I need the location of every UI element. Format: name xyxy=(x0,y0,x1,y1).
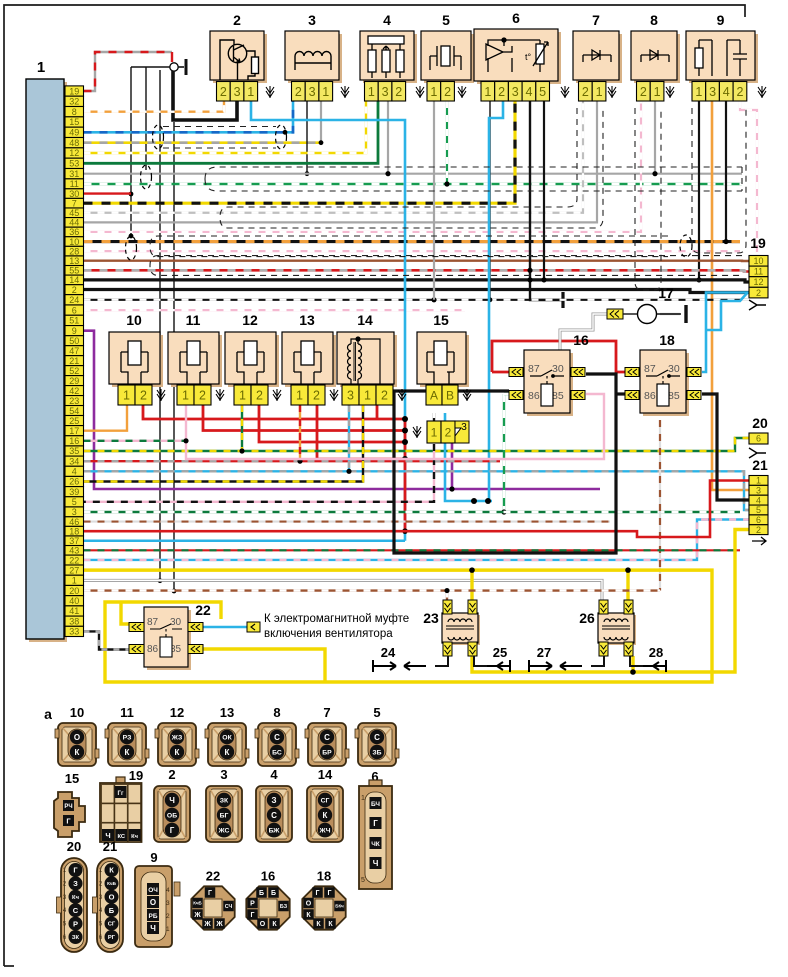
svg-text:1: 1 xyxy=(484,85,491,99)
svg-text:10: 10 xyxy=(69,237,79,247)
svg-text:4: 4 xyxy=(723,85,730,99)
svg-text:К: К xyxy=(125,748,130,757)
svg-text:12: 12 xyxy=(69,148,79,158)
svg-text:5: 5 xyxy=(361,877,365,884)
svg-text:18: 18 xyxy=(317,869,331,884)
svg-text:8: 8 xyxy=(72,107,77,117)
svg-text:14: 14 xyxy=(69,275,79,285)
svg-text:13: 13 xyxy=(69,256,79,266)
svg-text:5: 5 xyxy=(442,12,450,28)
svg-text:Г: Г xyxy=(328,890,332,897)
svg-text:16: 16 xyxy=(261,869,275,884)
svg-text:КчБ: КчБ xyxy=(193,901,201,906)
svg-text:7: 7 xyxy=(72,198,77,208)
svg-text:12: 12 xyxy=(242,312,258,328)
svg-text:4: 4 xyxy=(166,887,170,894)
svg-text:Г: Г xyxy=(66,817,71,826)
svg-text:3: 3 xyxy=(220,767,227,782)
svg-text:10: 10 xyxy=(126,312,142,328)
svg-text:2: 2 xyxy=(445,425,452,439)
svg-text:БЖ: БЖ xyxy=(269,827,281,834)
svg-text:Г: Г xyxy=(316,890,320,897)
svg-text:5: 5 xyxy=(72,497,77,507)
svg-text:Кч: Кч xyxy=(72,895,79,901)
svg-text:50: 50 xyxy=(69,336,79,346)
svg-text:16: 16 xyxy=(573,332,589,348)
svg-text:3: 3 xyxy=(166,900,170,907)
svg-text:86: 86 xyxy=(644,390,656,402)
svg-text:12: 12 xyxy=(753,277,763,287)
svg-text:3: 3 xyxy=(512,85,519,99)
svg-text:К: К xyxy=(316,921,321,928)
svg-text:21: 21 xyxy=(69,356,79,366)
svg-text:1: 1 xyxy=(322,85,329,99)
svg-text:ЧК: ЧК xyxy=(371,841,380,848)
svg-text:2: 2 xyxy=(381,389,388,403)
svg-text:3: 3 xyxy=(347,389,354,403)
svg-text:15: 15 xyxy=(69,117,79,127)
svg-text:1: 1 xyxy=(296,389,303,403)
svg-text:21: 21 xyxy=(103,839,117,854)
svg-text:31: 31 xyxy=(69,169,79,179)
svg-text:26: 26 xyxy=(579,610,595,626)
svg-text:6: 6 xyxy=(756,434,761,444)
svg-text:2: 2 xyxy=(640,85,647,99)
svg-text:6: 6 xyxy=(756,515,761,525)
svg-text:A: A xyxy=(430,388,438,402)
svg-text:87: 87 xyxy=(147,617,159,628)
svg-text:2: 2 xyxy=(582,85,589,99)
svg-text:СГ: СГ xyxy=(108,922,116,928)
svg-text:С: С xyxy=(374,733,380,742)
svg-text:К: К xyxy=(75,748,80,757)
svg-text:34: 34 xyxy=(69,456,79,466)
svg-text:К: К xyxy=(272,921,277,928)
svg-text:2: 2 xyxy=(220,85,227,99)
svg-text:Г: Г xyxy=(73,866,78,875)
svg-text:К: К xyxy=(323,811,328,820)
svg-text:О: О xyxy=(260,921,266,928)
svg-text:21: 21 xyxy=(752,457,768,473)
svg-text:38: 38 xyxy=(69,616,79,626)
svg-text:4: 4 xyxy=(270,767,278,782)
svg-text:19: 19 xyxy=(129,768,143,783)
svg-text:25: 25 xyxy=(69,416,79,426)
svg-text:Б: Б xyxy=(259,890,264,897)
svg-text:30: 30 xyxy=(69,189,79,199)
svg-text:3: 3 xyxy=(72,507,77,517)
svg-text:26: 26 xyxy=(69,477,79,487)
svg-text:С: С xyxy=(271,811,277,820)
svg-text:1: 1 xyxy=(123,389,130,403)
svg-text:1: 1 xyxy=(654,85,661,99)
svg-text:1: 1 xyxy=(37,59,45,76)
svg-text:К: К xyxy=(225,748,230,757)
svg-text:54: 54 xyxy=(69,406,79,416)
svg-text:13: 13 xyxy=(220,705,234,720)
svg-text:О: О xyxy=(150,898,156,907)
svg-text:17: 17 xyxy=(69,426,79,436)
svg-text:2: 2 xyxy=(168,767,175,782)
svg-text:ЗК: ЗК xyxy=(220,797,229,804)
svg-text:Г: Г xyxy=(373,819,378,828)
svg-text:3: 3 xyxy=(461,422,467,433)
svg-text:23: 23 xyxy=(69,396,79,406)
svg-text:1: 1 xyxy=(182,389,189,403)
svg-text:СЧ: СЧ xyxy=(225,904,233,910)
svg-text:42: 42 xyxy=(69,386,79,396)
svg-text:ЗБ: ЗБ xyxy=(372,749,381,756)
svg-text:15: 15 xyxy=(65,771,79,786)
svg-text:32: 32 xyxy=(69,97,79,107)
svg-text:2: 2 xyxy=(736,85,743,99)
svg-text:2: 2 xyxy=(444,85,451,99)
svg-text:ЖС: ЖС xyxy=(218,827,230,834)
svg-text:2: 2 xyxy=(199,389,206,403)
svg-text:20: 20 xyxy=(752,415,768,431)
svg-text:К: К xyxy=(175,748,180,757)
svg-text:З: З xyxy=(271,796,276,805)
svg-text:1: 1 xyxy=(695,85,702,99)
svg-text:2: 2 xyxy=(140,389,147,403)
svg-text:1: 1 xyxy=(364,389,371,403)
svg-text:Ж: Ж xyxy=(215,921,223,928)
svg-text:15: 15 xyxy=(433,312,449,328)
svg-text:86: 86 xyxy=(528,390,540,402)
svg-text:20: 20 xyxy=(69,586,79,596)
svg-text:Р: Р xyxy=(73,919,78,928)
svg-text:2: 2 xyxy=(313,389,320,403)
svg-text:ЗК: ЗК xyxy=(72,935,80,941)
svg-text:4: 4 xyxy=(525,85,532,99)
svg-text:1: 1 xyxy=(368,85,375,99)
svg-text:43: 43 xyxy=(69,546,79,556)
svg-text:14: 14 xyxy=(357,312,373,328)
svg-text:а: а xyxy=(44,706,52,722)
svg-text:З: З xyxy=(73,879,78,888)
svg-text:51: 51 xyxy=(69,316,79,326)
svg-text:1: 1 xyxy=(431,425,438,439)
svg-text:30: 30 xyxy=(668,363,680,375)
svg-text:1: 1 xyxy=(247,85,254,99)
svg-text:Б: Б xyxy=(271,890,276,897)
svg-text:9: 9 xyxy=(72,326,77,336)
svg-text:9: 9 xyxy=(150,850,157,865)
svg-text:6: 6 xyxy=(72,305,77,315)
svg-text:10: 10 xyxy=(70,705,84,720)
svg-text:53: 53 xyxy=(69,159,79,169)
svg-text:РЧ: РЧ xyxy=(64,804,72,810)
svg-text:5: 5 xyxy=(756,505,761,515)
svg-text:7: 7 xyxy=(323,705,330,720)
svg-text:10: 10 xyxy=(753,256,763,266)
svg-text:87: 87 xyxy=(644,363,656,375)
svg-text:БС: БС xyxy=(272,749,282,756)
svg-text:С: С xyxy=(324,733,330,742)
svg-text:РБ: РБ xyxy=(148,913,157,920)
svg-text:22: 22 xyxy=(69,555,79,565)
svg-text:18: 18 xyxy=(69,526,79,536)
svg-text:87: 87 xyxy=(528,363,540,375)
svg-text:О: О xyxy=(306,901,312,908)
svg-text:КС: КС xyxy=(117,834,125,840)
svg-text:5: 5 xyxy=(373,705,380,720)
svg-text:2: 2 xyxy=(256,389,263,403)
svg-text:5: 5 xyxy=(539,85,546,99)
svg-text:РГ: РГ xyxy=(108,935,116,941)
svg-text:3: 3 xyxy=(709,85,716,99)
svg-text:ОЧ: ОЧ xyxy=(148,887,158,894)
svg-text:19: 19 xyxy=(750,235,766,251)
svg-text:8: 8 xyxy=(273,705,280,720)
svg-text:3: 3 xyxy=(756,486,761,496)
svg-text:Г: Г xyxy=(251,912,255,919)
svg-text:3: 3 xyxy=(309,85,316,99)
svg-text:1: 1 xyxy=(596,85,603,99)
svg-text:1: 1 xyxy=(430,85,437,99)
svg-text:4: 4 xyxy=(383,12,391,28)
svg-text:22: 22 xyxy=(195,602,211,618)
svg-text:85: 85 xyxy=(668,390,680,402)
svg-text:1: 1 xyxy=(239,389,246,403)
svg-text:Г: Г xyxy=(208,890,212,897)
svg-text:Гг: Гг xyxy=(118,791,124,797)
svg-text:30: 30 xyxy=(552,363,564,375)
svg-text:11: 11 xyxy=(754,267,763,277)
svg-text:ОК: ОК xyxy=(222,734,232,741)
svg-text:11: 11 xyxy=(186,312,201,328)
svg-text:46: 46 xyxy=(69,517,79,527)
svg-text:55: 55 xyxy=(69,266,79,276)
svg-text:БЗ: БЗ xyxy=(280,904,288,910)
svg-text:О: О xyxy=(109,893,115,902)
svg-text:1: 1 xyxy=(166,926,170,933)
svg-text:Б: Б xyxy=(109,906,115,915)
svg-text:Ч: Ч xyxy=(373,859,379,868)
svg-text:1: 1 xyxy=(756,476,761,486)
svg-text:28: 28 xyxy=(649,645,663,660)
svg-text:22: 22 xyxy=(206,869,220,884)
svg-text:Кч: Кч xyxy=(131,834,138,840)
svg-text:11: 11 xyxy=(120,705,134,720)
svg-text:52: 52 xyxy=(69,366,79,376)
svg-text:20: 20 xyxy=(67,839,81,854)
svg-text:28: 28 xyxy=(69,246,79,256)
svg-text:7: 7 xyxy=(592,12,600,28)
svg-text:23: 23 xyxy=(423,610,439,626)
svg-text:2: 2 xyxy=(166,913,170,920)
svg-text:3: 3 xyxy=(308,12,316,28)
svg-text:С: С xyxy=(274,733,280,742)
svg-text:О: О xyxy=(74,733,80,742)
svg-text:Ж: Ж xyxy=(203,921,211,928)
svg-text:СГ: СГ xyxy=(321,797,330,804)
svg-text:2: 2 xyxy=(395,85,402,99)
svg-text:45: 45 xyxy=(69,208,79,218)
svg-text:1: 1 xyxy=(361,795,365,802)
svg-text:3: 3 xyxy=(382,85,389,99)
svg-text:19: 19 xyxy=(69,86,79,96)
svg-text:6: 6 xyxy=(512,10,520,26)
svg-text:Ж: Ж xyxy=(193,912,201,919)
svg-text:11: 11 xyxy=(70,179,79,189)
svg-text:ЖЧ: ЖЧ xyxy=(318,827,330,834)
svg-text:2: 2 xyxy=(756,288,761,298)
svg-text:48: 48 xyxy=(69,138,79,148)
svg-text:включения вентилятора: включения вентилятора xyxy=(264,628,393,640)
svg-text:49: 49 xyxy=(69,128,79,138)
svg-text:33: 33 xyxy=(69,627,79,637)
svg-text:К электромагнитной муфте: К электромагнитной муфте xyxy=(264,613,409,625)
svg-text:85: 85 xyxy=(552,390,564,402)
svg-text:9: 9 xyxy=(717,12,725,28)
svg-text:t°: t° xyxy=(525,52,532,62)
svg-text:2: 2 xyxy=(233,12,241,28)
svg-text:Ч: Ч xyxy=(150,924,156,933)
svg-text:27: 27 xyxy=(69,565,79,575)
svg-text:БГ: БГ xyxy=(220,812,229,819)
svg-text:44: 44 xyxy=(69,218,79,228)
svg-text:К: К xyxy=(109,866,114,875)
svg-text:41: 41 xyxy=(69,606,79,616)
svg-text:2: 2 xyxy=(756,525,761,535)
svg-text:КчБ: КчБ xyxy=(107,881,116,886)
svg-text:4: 4 xyxy=(72,467,77,477)
svg-text:2: 2 xyxy=(498,85,505,99)
svg-text:37: 37 xyxy=(69,536,79,546)
svg-text:2: 2 xyxy=(72,285,77,295)
svg-text:14: 14 xyxy=(318,767,333,782)
svg-text:35: 35 xyxy=(69,446,79,456)
svg-text:1: 1 xyxy=(72,576,77,586)
svg-text:ОБ: ОБ xyxy=(167,812,177,819)
svg-text:12: 12 xyxy=(170,705,184,720)
svg-text:Г: Г xyxy=(170,826,175,835)
svg-text:17: 17 xyxy=(658,285,674,301)
svg-text:БКч: БКч xyxy=(335,904,344,909)
svg-text:3: 3 xyxy=(234,85,241,99)
svg-text:БР: БР xyxy=(322,749,332,756)
svg-text:4: 4 xyxy=(756,495,761,505)
svg-text:36: 36 xyxy=(69,227,79,237)
svg-text:B: B xyxy=(446,388,454,402)
svg-text:К: К xyxy=(328,921,333,928)
svg-text:40: 40 xyxy=(69,596,79,606)
svg-text:39: 39 xyxy=(69,487,79,497)
svg-text:30: 30 xyxy=(170,617,182,628)
svg-text:27: 27 xyxy=(537,645,551,660)
svg-text:С: С xyxy=(73,906,79,915)
svg-text:Ч: Ч xyxy=(169,796,175,805)
svg-text:86: 86 xyxy=(147,644,159,655)
svg-text:ЖЗ: ЖЗ xyxy=(171,734,182,741)
svg-text:18: 18 xyxy=(659,332,675,348)
svg-text:47: 47 xyxy=(69,346,79,356)
svg-text:К: К xyxy=(306,912,311,919)
svg-text:16: 16 xyxy=(69,436,79,446)
svg-text:24: 24 xyxy=(381,645,396,660)
svg-text:РЗ: РЗ xyxy=(123,734,132,741)
svg-text:25: 25 xyxy=(493,645,507,660)
svg-text:13: 13 xyxy=(299,312,315,328)
svg-text:8: 8 xyxy=(650,12,658,28)
svg-text:24: 24 xyxy=(69,295,79,305)
svg-text:БЧ: БЧ xyxy=(371,801,380,808)
svg-text:29: 29 xyxy=(69,376,79,386)
svg-text:Р: Р xyxy=(250,901,255,908)
svg-text:2: 2 xyxy=(295,85,302,99)
